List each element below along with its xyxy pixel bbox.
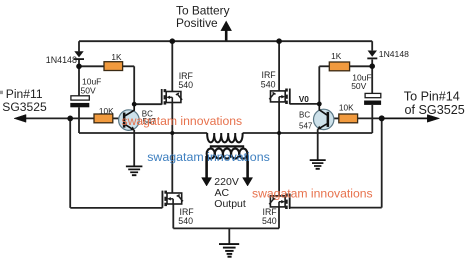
wire left source net y132 — [79, 132, 207, 134]
node battery arrow — [221, 21, 231, 40]
junction D2 cathode node — [369, 63, 375, 69]
wire 1K R1 branch — [79, 65, 104, 67]
junction node A pin11 net — [67, 116, 73, 122]
capacitor C1 10uF — [70, 96, 89, 108]
wire Q1 emitter to ground — [133, 130, 135, 166]
ground center bottom — [219, 244, 239, 257]
transformer T1 primary winding — [207, 133, 242, 142]
junction D1 cathode node — [76, 64, 82, 70]
wire 1K R3 branch — [350, 65, 373, 67]
diode D1 1N4148 — [74, 51, 84, 60]
wire R2 to Q1 base — [113, 117, 123, 119]
svg-text:Positive: Positive — [176, 16, 218, 30]
svg-text:10K: 10K — [99, 106, 114, 116]
junction M2 source transformer tap — [277, 131, 281, 135]
wire ground stem center — [228, 228, 230, 243]
ground below Q1 — [126, 166, 142, 175]
svg-text:BC: BC — [299, 111, 310, 120]
svg-text:547: 547 — [299, 121, 313, 130]
wire M2 source down to M4 drain — [278, 102, 280, 196]
wire node A drop down — [69, 118, 71, 207]
resistor R1 1K — [104, 62, 123, 71]
wire M4 gate lead up — [289, 194, 291, 208]
wire corner down to Q1 collector node — [133, 66, 135, 104]
transistor M4 IRF540 bottom-right — [269, 194, 289, 210]
wire M1 gate lead up — [161, 89, 163, 105]
transformer T1 core — [210, 145, 244, 147]
svg-text:10K: 10K — [339, 102, 354, 112]
wire M2 drain from bus — [278, 41, 280, 91]
wire R1 to corner — [123, 65, 135, 67]
svg-text:of SG3525: of SG3525 — [405, 103, 465, 117]
svg-text:swagatam innovations: swagatam innovations — [252, 187, 373, 201]
wire M2 gate lead up — [289, 89, 291, 105]
svg-text:1K: 1K — [111, 52, 122, 62]
wire to M3 gate — [70, 207, 162, 209]
wire transformer right primary lead — [243, 132, 373, 134]
node pin11 arrow — [14, 115, 26, 123]
wire bottom rail — [173, 227, 279, 229]
wire M3 source to bottom rail — [172, 204, 174, 228]
svg-text:V0: V0 — [299, 94, 310, 104]
wire D2 cathode down to capacitor C2 — [371, 60, 373, 94]
wire C1 bottom lead down — [78, 107, 80, 133]
node left edge tick — [0, 91, 3, 94]
wire Q1 collector node to M1 gate — [134, 103, 162, 105]
ground below Q2 — [310, 160, 326, 169]
transistor M2 IRF540 top-right — [269, 89, 289, 105]
svg-text:50V: 50V — [351, 81, 366, 91]
wire R4 to node B — [358, 117, 382, 119]
svg-text:To Pin#14: To Pin#14 — [404, 90, 460, 104]
wire left bus corner drop to diode — [78, 41, 80, 51]
junction Q1 collector M1 gate — [132, 102, 137, 107]
wire right bus corner drop to diode D2 — [371, 41, 373, 50]
transistor Q2 BC547 — [314, 104, 334, 130]
wire M4 source to bottom rail — [278, 207, 280, 229]
svg-text:1N4148: 1N4148 — [46, 55, 77, 65]
capacitor C2 10uF — [364, 93, 381, 105]
wire top positive bus — [79, 40, 372, 42]
svg-text:SG3525: SG3525 — [2, 100, 47, 114]
wire M2 gate to Q2 collector node — [290, 103, 320, 105]
node output arrow right — [243, 156, 253, 186]
wire pin11 horizontal — [24, 117, 95, 119]
wire diode cathode down to capacitor C1 — [78, 60, 80, 96]
transformer T1 secondary winding — [207, 149, 248, 159]
wire node B drop down — [381, 118, 383, 207]
wire M1 drain from bus — [171, 41, 173, 91]
transistor M3 IRF540 bottom-left — [163, 191, 183, 207]
wire M3 gate lead up — [161, 191, 163, 208]
transistor M1 IRF540 top-left — [162, 89, 182, 105]
svg-text:540: 540 — [261, 80, 276, 90]
junction bus M1 drain — [170, 38, 176, 44]
resistor R4 10K — [339, 114, 358, 123]
wire R3 to corner — [319, 65, 329, 67]
junction bus M2 drain — [276, 38, 282, 44]
svg-text:Pin#11: Pin#11 — [6, 87, 43, 101]
node output arrow left — [202, 156, 212, 186]
node pin14 arrow — [382, 115, 440, 123]
wire C2 bottom lead down — [371, 105, 373, 133]
wire Q2 base to R4 — [329, 117, 339, 119]
junction Q2 collector M2 gate — [317, 102, 322, 107]
transistor Q1 BC547 — [119, 104, 140, 131]
svg-text:swagatam innovations: swagatam innovations — [122, 114, 243, 128]
junction M1 source transformer tap — [170, 131, 174, 135]
svg-text:Output: Output — [214, 198, 246, 210]
svg-text:540: 540 — [178, 216, 193, 226]
wire M1 source down to M3 drain — [171, 103, 173, 194]
resistor R3 1K — [329, 62, 349, 71]
wire to M4 gate — [290, 207, 382, 209]
svg-text:1K: 1K — [331, 51, 342, 61]
svg-text:1N4148: 1N4148 — [379, 49, 409, 59]
svg-text:540: 540 — [178, 80, 193, 90]
wire Q2 emitter to ground — [317, 129, 319, 159]
diode D2 1N4148 — [367, 51, 377, 60]
junction node B pin14 net — [379, 115, 385, 121]
svg-text:50V: 50V — [81, 85, 96, 95]
wire corner down to Q2 collector node — [318, 66, 320, 104]
svg-text:AC: AC — [215, 187, 230, 199]
svg-text:540: 540 — [262, 216, 277, 226]
svg-text:swagatam innovations: swagatam innovations — [147, 150, 270, 164]
resistor R2 10K — [94, 114, 113, 123]
